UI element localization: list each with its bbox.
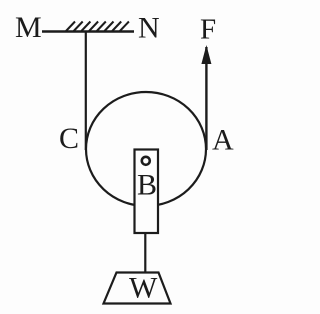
svg-text:W: W	[129, 272, 158, 305]
svg-text:A: A	[212, 124, 234, 157]
svg-text:C: C	[59, 122, 79, 155]
axle pin circle	[142, 157, 150, 165]
force arrowhead F	[201, 45, 211, 64]
ceiling hatching	[66, 22, 129, 32]
rod from block to weight	[144, 233, 146, 272]
pulley wheel	[86, 92, 206, 206]
svg-text:F: F	[200, 14, 216, 46]
wire from ceiling to pulley at C	[85, 31, 87, 150]
ceiling line	[42, 30, 134, 32]
axle block	[135, 150, 159, 234]
rope from A up to F	[205, 47, 207, 150]
weight trapezoid	[104, 273, 171, 304]
svg-text:N: N	[138, 12, 160, 45]
svg-text:B: B	[137, 169, 157, 202]
svg-text:M: M	[15, 11, 42, 44]
